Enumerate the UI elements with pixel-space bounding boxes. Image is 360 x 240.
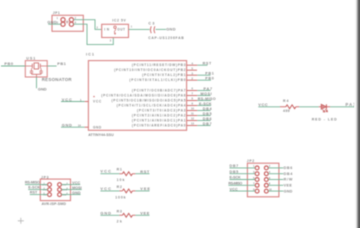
JP3 body — [40, 179, 70, 201]
svg-text:DB5: DB5 — [230, 170, 239, 174]
IC1 pin 13 stub — [187, 125, 198, 127]
IC1 pin 5 stub — [187, 69, 197, 71]
svg-text:(PCINT2/AIN1/ADC2)PA2: (PCINT2/AIN1/ADC2)PA2 — [132, 113, 186, 117]
wire JP3 pin 2 to VCC — [61, 184, 80, 186]
JP2 pin 5 circle — [255, 178, 259, 182]
svg-text:R4: R4 — [283, 99, 289, 103]
US1 body — [25, 61, 47, 77]
JP1 pin 4 circle — [69, 22, 73, 26]
svg-text:PB1: PB1 — [205, 72, 214, 76]
R4 zigzag — [286, 105, 296, 109]
svg-text:DB5: DB5 — [203, 112, 212, 116]
svg-text:OUT: OUT — [117, 28, 125, 32]
wire GND net at IC1 — [61, 126, 85, 128]
svg-text:IC1: IC1 — [86, 53, 94, 57]
svg-text:DB7: DB7 — [203, 122, 212, 126]
svg-text:DB7: DB7 — [230, 164, 239, 168]
svg-text:100k: 100k — [115, 195, 125, 199]
svg-text:E-SCK: E-SCK — [230, 176, 242, 180]
C3 right plate — [153, 26, 156, 33]
svg-text:RS-MISO: RS-MISO — [228, 182, 242, 186]
US1 internal caps to gnd — [30, 68, 33, 74]
IC1 body — [88, 61, 186, 131]
wire C3 to GND — [156, 28, 166, 30]
wire RS-MISO net — [197, 100, 211, 102]
wire E-SCK to JP2 pin 5 — [230, 179, 256, 181]
JP2 pin 4 circle — [264, 172, 268, 176]
wire IC2 OUT to C3 — [129, 28, 150, 30]
connector JP2 LCD header — [247, 159, 279, 197]
svg-text:PB0: PB0 — [4, 61, 13, 66]
wire E-SCK net — [197, 105, 211, 107]
svg-text:(PCINT3/T0/ADC3)PA3: (PCINT3/T0/ADC3)PA3 — [137, 108, 186, 112]
wire PB0 to US1 pin 1 — [1, 65, 25, 67]
IC1 pin 8 stub — [187, 100, 198, 102]
JP1 pin 1 circle — [61, 18, 65, 22]
svg-text:US1: US1 — [26, 56, 35, 60]
svg-text:R1: R1 — [117, 168, 122, 172]
JP1 origin cross — [66, 20, 69, 23]
svg-text:(PCINT4/T1/SCL/SCK/ADC4)PA4: (PCINT4/T1/SCL/SCK/ADC4)PA4 — [117, 103, 186, 107]
wire DB5 net — [197, 115, 210, 117]
wire RST net — [197, 64, 207, 66]
svg-text:GND: GND — [62, 123, 72, 128]
svg-text:(PCINT0/AREF/ADC0)PA0: (PCINT0/AREF/ADC0)PA0 — [132, 123, 186, 127]
IC1 pin 14 stub — [85, 126, 89, 128]
microcontroller IC1 ATTINY44 — [86, 53, 187, 137]
R2 zigzag — [122, 189, 132, 193]
svg-text:JP1: JP1 — [53, 11, 60, 15]
IC1 pin 12 stub — [187, 120, 198, 122]
svg-text:(PCINT6/OC1A/SDA/MOSI/DI/ADC6): (PCINT6/OC1A/SDA/MOSI/DI/ADC6)PA6 — [101, 93, 185, 97]
IC1 pin 1 stub — [85, 101, 89, 103]
svg-text:R3: R3 — [117, 209, 122, 213]
svg-text:(PCINT7/OC0B/ADC7)PA7: (PCINT7/OC0B/ADC7)PA7 — [132, 88, 186, 92]
IC1 pin 4 stub — [187, 64, 198, 66]
svg-text:DB6: DB6 — [203, 117, 212, 121]
wire JP2 pin 6 to R/W — [268, 179, 283, 181]
JP2 pin 2 circle — [264, 166, 268, 170]
wire GND to R3 — [100, 214, 119, 216]
svg-text:(PCINT1/AIN0/ADC1)PA1: (PCINT1/AIN0/ADC1)PA1 — [132, 118, 186, 122]
svg-text:VCC: VCC — [230, 187, 239, 191]
LED1 leads — [319, 106, 330, 108]
svg-text:DB4: DB4 — [284, 172, 294, 176]
svg-text:2k: 2k — [117, 220, 122, 224]
wire JP2 pin 4 to DB4 — [268, 173, 283, 175]
JP3 pin 5 circle (RST) — [48, 193, 52, 197]
IC2 regulator symbol — [114, 26, 116, 28]
svg-text:R2: R2 — [117, 185, 122, 189]
JP2 pin 7 circle — [255, 183, 259, 187]
svg-text:DB4: DB4 — [203, 107, 213, 111]
wire MOSI net — [197, 95, 210, 97]
connector JP1 — [52, 11, 83, 31]
US1 crystal symbol — [25, 65, 47, 67]
R2 leads — [119, 190, 135, 192]
JP2 pin 8 circle — [264, 183, 268, 187]
capacitor C3 — [148, 21, 184, 40]
svg-text:RESONATOR: RESONATOR — [42, 77, 73, 82]
IC1 pin 11 stub — [187, 115, 198, 117]
IC1 origin dot — [93, 96, 94, 97]
wire VCC to R1 — [100, 173, 119, 175]
svg-text:VEE: VEE — [284, 184, 293, 188]
wire PA7 net at IC1 — [197, 90, 210, 92]
JP2 pin 1 circle — [255, 166, 259, 170]
resistor R4 — [280, 99, 299, 113]
svg-text:MOSI: MOSI — [201, 92, 212, 96]
sheet origin cross — [18, 218, 24, 224]
svg-text:VCC: VCC — [258, 102, 267, 107]
IC1 pin 2 stub — [187, 79, 198, 81]
svg-text:IC2 5V: IC2 5V — [112, 19, 126, 23]
JP2 pin 9 circle — [255, 189, 259, 193]
wire VCC net at IC1 — [61, 101, 85, 103]
wire JP3 pin 4 to MOSI — [61, 189, 81, 191]
wire US1 pin 3 to GND — [36, 77, 38, 88]
svg-text:(PCINT9/XTAL2)PB1: (PCINT9/XTAL2)PB1 — [142, 73, 186, 77]
wire PB1 net — [197, 74, 210, 76]
JP3 pin 2 circle (VCC) — [58, 183, 62, 187]
wire DB7 to JP2 pin 1 — [230, 167, 256, 169]
svg-text:1: 1 — [57, 17, 59, 20]
LED1 triangle — [321, 104, 326, 109]
wire RST to JP3 pin 5 — [30, 194, 48, 196]
resonator US1 — [25, 56, 72, 81]
wire DB5 to JP2 pin 3 — [230, 173, 256, 175]
svg-text:(PCINT10/INT0/OC0A/CKOUT)PB2: (PCINT10/INT0/OC0A/CKOUT)PB2 — [114, 68, 186, 72]
svg-text:VEE: VEE — [140, 211, 149, 216]
JP1 pin 3 circle — [61, 22, 65, 26]
svg-text:R/W: R/W — [284, 178, 293, 182]
svg-text:(PCINT5/OC1B/MISO/DO/ADC5)PA5: (PCINT5/OC1B/MISO/DO/ADC5)PA5 — [112, 98, 186, 102]
IC1 pin 10 stub — [187, 110, 198, 112]
IC2 body — [102, 24, 129, 37]
LED1 cathode bar — [325, 104, 327, 109]
svg-text:RED - LED: RED - LED — [312, 118, 337, 122]
wire JP1 pin 2 to IC2 IN — [73, 20, 101, 30]
IC1 pin 3 stub — [187, 74, 198, 76]
svg-text:RST: RST — [140, 169, 150, 174]
svg-text:RST: RST — [203, 62, 212, 66]
svg-text:C3: C3 — [148, 21, 154, 25]
svg-text:E-SCK: E-SCK — [199, 102, 212, 106]
wire JP3 pin 6 to GND — [61, 194, 80, 196]
IC1 pin 7 stub — [187, 95, 198, 97]
wire R3 to VEE — [135, 214, 149, 216]
resistor R1 — [117, 168, 136, 183]
svg-text:1: 1 — [131, 26, 133, 29]
svg-text:VCC: VCC — [100, 169, 111, 174]
JP3 pin 6 circle (GND) — [58, 193, 62, 197]
JP2 body — [247, 163, 279, 197]
JP3 pin 3 circle (SCK) — [48, 188, 52, 192]
wire RS-MISO to JP2 pin 7 — [228, 184, 255, 186]
window edge shadow — [354, 0, 360, 228]
svg-text:PB0: PB0 — [205, 77, 214, 81]
wire US1 pin 2 to PB1 — [47, 65, 56, 67]
svg-text:DB6: DB6 — [284, 166, 293, 170]
svg-text:ATTINY44-SSU: ATTINY44-SSU — [88, 133, 114, 137]
svg-text:VCC: VCC — [100, 186, 111, 191]
JP2 pin 3 circle — [255, 172, 259, 176]
wire R2 to VEE — [135, 190, 149, 192]
svg-text:RST: RST — [30, 191, 38, 195]
wire JP2 pin 8 to VEE — [268, 184, 283, 186]
JP1 body — [52, 15, 83, 31]
wire LED1 to PA7 — [330, 106, 355, 108]
svg-text:PA7: PA7 — [204, 87, 213, 91]
JP3 pin 4 circle (MOSI) — [58, 188, 62, 192]
svg-text:VCC: VCC — [72, 181, 80, 185]
R1 zigzag — [122, 172, 132, 176]
svg-text:GND: GND — [284, 189, 293, 193]
wire DB6 net — [197, 120, 210, 122]
svg-text:10k: 10k — [117, 178, 125, 182]
svg-text:AVR-ISP-SMD: AVR-ISP-SMD — [42, 202, 67, 206]
wire JP1 pin 4 to IC2 GND pin — [73, 24, 113, 44]
JP2 pin 10 circle — [264, 189, 268, 193]
C3 left plate — [149, 26, 152, 33]
R1 leads — [119, 173, 135, 175]
JP1 pin 2 circle — [69, 18, 73, 22]
wire DB4 net — [197, 110, 210, 112]
R4 leads — [280, 106, 299, 108]
JP3 pin 1 circle (MISO) — [48, 183, 52, 187]
svg-text:(PCINT11/RESET/DW)PB3: (PCINT11/RESET/DW)PB3 — [132, 63, 186, 67]
wire VCC to R2 — [100, 190, 119, 192]
wire RS-MISO to JP3 pin 1 — [25, 184, 48, 186]
svg-text:MOSI: MOSI — [72, 186, 82, 190]
wire E-SCK to JP3 pin 3 — [28, 189, 47, 191]
svg-text:GND: GND — [93, 125, 102, 129]
wire R4 to LED1 — [299, 106, 319, 108]
svg-text:GND: GND — [166, 26, 175, 31]
wire GND to JP1 pin 3 — [48, 23, 61, 25]
svg-text:JP2: JP2 — [247, 159, 255, 163]
R3 leads — [119, 214, 135, 216]
svg-text:GND: GND — [100, 210, 111, 215]
resistor R3 — [117, 209, 136, 223]
wire JP2 pin 10 to GND — [268, 190, 283, 192]
svg-text:VCC: VCC — [93, 100, 102, 104]
svg-text:GND: GND — [72, 191, 81, 195]
R3 zigzag — [122, 213, 132, 217]
svg-text:GND: GND — [38, 87, 47, 92]
voltage regulator IC2 — [97, 19, 133, 43]
svg-text:(PCINT8/XTAL1/CLKI)PB0: (PCINT8/XTAL1/CLKI)PB0 — [129, 78, 185, 82]
svg-text:3: 3 — [110, 39, 112, 42]
svg-text:499: 499 — [283, 109, 290, 113]
wire DB7 net — [197, 125, 210, 127]
svg-text:VEE: VEE — [140, 186, 150, 191]
connector JP3 AVR-ISP-SMD — [40, 175, 70, 206]
IC1 pin 9 stub — [187, 105, 198, 107]
wire VCC to JP2 pin 9 — [230, 190, 256, 192]
svg-text:RS-MISO: RS-MISO — [198, 97, 216, 101]
wire JP2 pin 2 to DB6 — [268, 167, 283, 169]
resistor R2 — [115, 185, 135, 200]
LED LED1 — [312, 104, 337, 121]
LED1 emission arrows — [322, 109, 327, 112]
svg-text:PB1: PB1 — [57, 61, 66, 66]
wire R1 to RST — [135, 173, 149, 175]
svg-text:VCC: VCC — [62, 97, 72, 102]
IC1 pin 6 stub — [187, 90, 198, 92]
svg-text:GND: GND — [47, 19, 56, 24]
JP2 pin 6 circle — [264, 178, 268, 182]
svg-text:RS-MISO: RS-MISO — [25, 181, 40, 185]
svg-text:CAP-US1206FAB: CAP-US1206FAB — [148, 36, 184, 40]
svg-text:E-SCK: E-SCK — [28, 186, 40, 190]
wire VCC to R4 — [258, 106, 280, 108]
wire PB0 net — [197, 79, 211, 81]
svg-text:IN: IN — [104, 28, 109, 32]
